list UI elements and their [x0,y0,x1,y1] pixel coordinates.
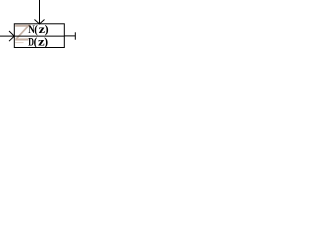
svg-text:): ) [44,34,48,48]
svg-text:(: ( [34,36,38,49]
